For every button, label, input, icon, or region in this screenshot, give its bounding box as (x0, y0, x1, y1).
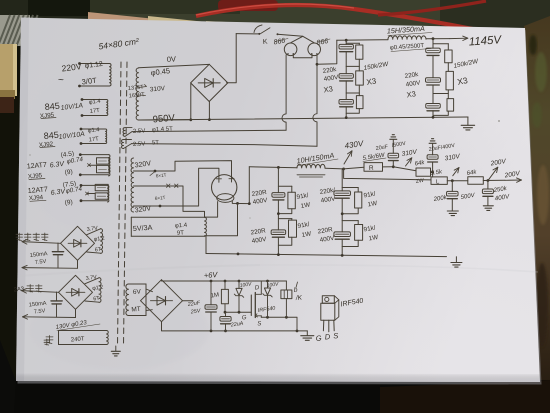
wire 950V negative rail (139, 117, 468, 120)
svg-text:310V: 310V (150, 85, 166, 93)
node B+ output of 866 filament (316, 63, 319, 66)
choke L2 10H/150mA (297, 164, 325, 168)
heater tap boxes 0.3A no.2 (95, 184, 108, 190)
wire BR3 output top with arrow (22, 291, 59, 293)
wire lower output rail (344, 169, 431, 180)
svg-text:φ1.4 5T: φ1.4 5T (152, 126, 174, 133)
label heater output no.1 (CJK) (16, 233, 23, 241)
svg-text:7.5V: 7.5V (34, 308, 46, 315)
wire BR2 output bottom with arrow (77, 260, 79, 268)
wire V2 filament down to 2.5V winding no.2 (hop over 950V) (313, 55, 317, 147)
wire BR4 right vertex stub (183, 300, 194, 302)
svg-text:845: 845 (44, 101, 60, 112)
capacitor 22uF gate (225, 312, 227, 316)
svg-text:2A3: 2A3 (14, 286, 25, 293)
winding 845 no.1 10V/1A (107, 100, 108, 116)
zener diode Z1 100V (238, 281, 240, 288)
svg-text:3/0T: 3/0T (81, 76, 97, 87)
wire 64k no.2 to 200V arrow (483, 179, 505, 181)
wire 0V rail to bridge top (139, 64, 210, 67)
ground regulator section (306, 331, 308, 336)
svg-text:9T: 9T (177, 230, 185, 236)
zener diode Z2 100V (267, 281, 269, 288)
wire source line (261, 316, 297, 318)
filter chain 2 cap bus 220k 400V X3 (432, 39, 434, 48)
label spare (CJK) (46, 336, 53, 344)
MOSFET Q1 IRF540 symbol (250, 295, 252, 316)
wire gate line (225, 311, 251, 313)
wire source to ground (296, 317, 298, 331)
bridge rectifier BR3 (3.7V no.2) (59, 275, 93, 309)
resistor 64k 2W (416, 168, 431, 176)
svg-text:17T: 17T (90, 108, 101, 115)
filter chain 1 resistor bus 150k/2W X3 (346, 42, 359, 44)
svg-text:R: R (369, 165, 374, 172)
wire +6V rail (162, 280, 287, 281)
wire V3 filament right pin B+ takeoff (232, 201, 249, 203)
wire node2 down to lower rail (432, 172, 434, 177)
choke L1 15H/350mA (388, 36, 426, 39)
capacitor BR3 output filter (56, 292, 58, 301)
bridge rectifier BR2 (3.7V no.1) (61, 226, 95, 260)
winding HV secondary 950V (136, 68, 138, 120)
rectifier tube V1 866 left (284, 43, 297, 56)
wire tube filament inner bar (293, 54, 312, 58)
winding 2.5V no.2 (122, 140, 124, 149)
svg-text:X3: X3 (323, 84, 333, 94)
rectifier tube V3 (full-wave) (212, 175, 237, 200)
svg-text:1145V: 1145V (468, 34, 502, 48)
arrow 430V (344, 151, 352, 164)
capacitor 20uF/400V to +top (432, 162, 434, 172)
transistor Q1 IRF540 package drawing (322, 296, 334, 304)
svg-text:0V: 0V (167, 54, 177, 64)
wire winding to BR4 (146, 289, 153, 292)
divider column B cap bus 220k 400V x2 (341, 169, 343, 191)
wire V3 filament left pin to 5V winding top (205, 202, 218, 218)
svg-text:5T: 5T (152, 140, 160, 146)
svg-text:/K: /K (295, 294, 303, 302)
wire bridge left vertex down to 950V line (190, 84, 192, 120)
bridge rectifier BR4 (6V) (141, 280, 183, 322)
winding 6V MT (129, 283, 147, 285)
wire 1145V top rail (337, 39, 388, 42)
relay coil b/K (285, 281, 287, 290)
winding 5V/3A rectifier filament (131, 216, 204, 218)
winding 320V secondary (131, 158, 133, 212)
wire 5V winding to middle bottom rail (205, 236, 207, 253)
arrow 310V no.2 (453, 168, 459, 176)
resistor 1M (224, 281, 226, 289)
svg-text:845: 845 (43, 130, 59, 141)
svg-text:X3: X3 (406, 89, 416, 99)
divider column A cap bus 220k 400V x2 (277, 167, 279, 192)
heater tap boxes 0.3A no.1 (97, 158, 110, 164)
svg-text:17T: 17T (89, 136, 100, 143)
arrow 200V main (505, 179, 522, 181)
wire 320V bottom tap to tube plate 1 (134, 168, 219, 206)
wire BR3 output bottom with arrow (75, 309, 77, 317)
resistor 64k no.2 (468, 177, 484, 184)
svg-text:φ1.4: φ1.4 (175, 223, 188, 230)
wire B+ output to chain 1 (317, 40, 337, 64)
wire node to 64k 2W (393, 167, 416, 171)
winding 12AT7 heater no.1 6.3V (109, 155, 111, 176)
svg-text:~: ~ (58, 75, 64, 86)
wire choke output (325, 167, 344, 170)
wire 2.5V winding no.1 line (132, 130, 286, 131)
ground top section (467, 117, 469, 125)
arrow 1145V output (450, 37, 468, 39)
svg-text:S: S (257, 321, 262, 327)
svg-text:7.5V: 7.5V (35, 259, 47, 266)
divider column A resistors 91k/1W x2 (278, 185, 291, 187)
capacitor 20uF/500V to +top (392, 161, 394, 167)
capacitor BR2 output filter (57, 243, 59, 251)
svg-text:(9): (9) (64, 199, 73, 207)
wire R to node (383, 166, 394, 168)
capacitor 250k/400V with ground (487, 181, 489, 190)
transformer T1 core (dashed) (118, 62, 122, 346)
wire middle B+ rail (249, 167, 297, 168)
wire V1 filament down to 2.5V winding no.1 (hop over 950V) (282, 55, 286, 130)
wire BR2 output top with arrow (22, 242, 61, 244)
resistor R 5.5k/6W (344, 167, 364, 169)
svg-text:G: G (315, 334, 322, 343)
winding 220V primary (110, 64, 112, 87)
bridge rectifier BR1 (HV) (191, 64, 228, 101)
svg-text:950V: 950V (152, 113, 176, 126)
winding 2.5V no.1 (123, 128, 125, 137)
wire switch to tube plates (278, 34, 303, 36)
svg-text:240T: 240T (71, 336, 85, 343)
winding 3.7V no.1 (101, 229, 103, 254)
rectifier tube V2 866 right (308, 43, 321, 56)
wire 64k to node2 (431, 171, 433, 173)
svg-text:(9): (9) (64, 169, 73, 177)
winding 130V spare 240T (59, 330, 107, 332)
winding 845 no.2 10V/10A (106, 129, 107, 144)
ground transformer core shield (115, 346, 117, 351)
filter chain 1 cap bus 220k 400V X3 (345, 40, 347, 44)
capacitor 200k/500V with ground (451, 181, 453, 192)
svg-text:S: S (333, 331, 339, 340)
wire middle bottom rail (206, 254, 447, 257)
arrow 310V no.1 (406, 158, 412, 166)
resistor L 5.5k (431, 177, 447, 185)
wire BR4 bottom to 0V rail (162, 322, 308, 331)
wire 5V winding bottom terminal up (205, 203, 238, 235)
divider column B resistors 91k/1W x2 (342, 187, 358, 189)
wire 2.5V winding no.2 line (132, 144, 318, 147)
wire 320V center tap to 5V winding (134, 186, 205, 217)
wire 5.5k to 64k no.2 (447, 180, 468, 182)
capacitor 22uF/25V input filter (210, 281, 212, 305)
arrow 200V branch (489, 167, 498, 180)
svg-text:2.5V: 2.5V (133, 141, 146, 148)
wire bridge right vertex up to switch (227, 34, 237, 83)
wire HV bottom to bridge left riser (139, 119, 191, 121)
svg-text:1M: 1M (210, 292, 219, 299)
HV winding tap ticks (139, 85, 147, 88)
svg-text:2.5V: 2.5V (133, 128, 146, 135)
wire B+ riser to 10H choke rail (248, 167, 250, 204)
svg-text:MT: MT (131, 306, 141, 314)
wire choke to 1145V arrow (426, 38, 450, 40)
wire 320V top tap to tube plate 2 (134, 161, 232, 177)
ground middle section (455, 257, 457, 263)
filter chain 2 resistor bus 150k/2W X3 (433, 43, 448, 45)
switch K (236, 33, 259, 35)
svg-text:6V: 6V (133, 288, 142, 296)
svg-text:5V/3A: 5V/3A (133, 223, 153, 233)
svg-text:+6V: +6V (204, 270, 219, 280)
winding 3.7V no.2 (99, 278, 101, 303)
winding 12AT7 heater no.2 6.3V (108, 185, 109, 202)
wire bridge bottom vertex down to 950V line (208, 102, 210, 120)
